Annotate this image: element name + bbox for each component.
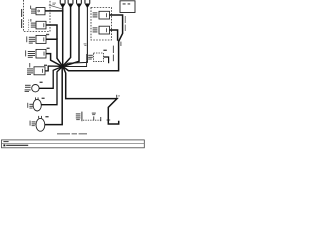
wire SW4 to hub (46, 54, 62, 67)
wire main right feed down and left to splice (63, 41, 119, 71)
component SW5 C-number (44, 65, 47, 66)
rotated wire label right of RA wire (125, 16, 126, 23)
wire RB right and down (110, 30, 118, 41)
wire L6 up to hub diagonal (39, 67, 62, 89)
component SW1 labels (29, 6, 32, 9)
footer box (2, 140, 145, 148)
component M7 motor oval (33, 99, 41, 111)
wire A1 stem to splice (62, 7, 64, 67)
component SW2 labels (29, 19, 32, 22)
component SW3 box (36, 35, 46, 43)
component SW5 labels (27, 68, 33, 69)
wire splice down to tank sender run (63, 67, 119, 124)
wire A4 stem then left to splice (63, 7, 87, 66)
footer divider (2, 142, 145, 144)
legend end tick (99, 117, 102, 121)
component RB labels (93, 27, 98, 28)
component SW4 box (36, 49, 46, 58)
component SW3 labels (25, 36, 28, 42)
component RB box (99, 26, 110, 34)
component M8 motor oval (36, 118, 45, 131)
footer row2 text (6, 145, 28, 146)
tick on sender down run (107, 119, 111, 122)
wire SW2 right then down (46, 25, 57, 39)
component M8 labels (29, 121, 32, 126)
label near A4 stem (84, 43, 87, 44)
component RA box (99, 11, 110, 19)
off-page arrow A4 ticks (84, 0, 85, 3)
dashed box: left switch assembly (24, 0, 51, 32)
component SW2 box (36, 21, 46, 29)
component M8 C-number (45, 116, 48, 117)
component M7 labels (26, 103, 29, 108)
component L6 lamp circle (32, 85, 39, 92)
component SW5 box (34, 67, 45, 75)
wire SW1 to splice stem (45, 10, 63, 12)
component C9 C-number (103, 50, 106, 51)
legend small label (92, 113, 96, 114)
component C9 labels (inline connector) (85, 54, 88, 61)
off-page arrow A2 ticks (68, 0, 69, 3)
caption: figure title (57, 133, 70, 134)
component RA labels (93, 12, 98, 13)
component SW5 rotated label (28, 63, 31, 67)
off-page arrow A1 (60, 4, 66, 9)
wire M7 up to hub (41, 67, 62, 105)
component SW4 label C-number (47, 48, 50, 49)
component SW4 labels (24, 50, 27, 56)
component SW3 label C-number (46, 34, 49, 35)
wire C9 short stub down (104, 57, 109, 63)
label at sender corner (116, 95, 117, 98)
legend vertical bar (81, 112, 82, 122)
component M8 top ticks (37, 116, 40, 118)
component M7 top ticks (34, 97, 37, 99)
label near merge diagonal (120, 42, 121, 46)
component SW1 box (36, 8, 45, 15)
wire M8 up to hub (45, 67, 62, 125)
label S-number near diagonal (52, 3, 56, 4)
wire thin diagonal to assembly corner (49, 5, 63, 9)
off-page arrow A3 (76, 4, 82, 9)
footer bullet (3, 144, 5, 146)
wire SW5 up then to hub (45, 66, 62, 71)
wire RA right and down (110, 15, 123, 42)
off-page arrow A4 (85, 4, 91, 9)
connector box: top right detail (120, 1, 135, 13)
dashed box: right relay assembly (91, 8, 112, 41)
component L6 C-number (40, 82, 43, 83)
legend mid tick (92, 116, 95, 120)
splice hub junction (61, 65, 64, 68)
footer row1 text (3, 141, 8, 142)
wire A3 stem to splice (63, 7, 79, 66)
legend dashed link (83, 119, 102, 121)
off-page arrow A2 (68, 4, 74, 9)
component M7 C-number (42, 98, 45, 99)
wire A2 stem to splice (63, 7, 71, 66)
off-page arrow A3 ticks (76, 0, 77, 3)
legend: fuel sender detail labels (76, 113, 81, 114)
wire SW3 joining vertical (46, 39, 63, 66)
rotated label: left assembly name (21, 9, 22, 17)
dashed inner edge fragment (28, 20, 30, 32)
component C9 dashed box (94, 53, 104, 61)
rotated wire label left of main feed (113, 46, 114, 53)
component L6 labels (25, 85, 31, 86)
wire splice right to connector stub (63, 61, 87, 67)
off-page arrow A1 ticks (60, 0, 61, 3)
